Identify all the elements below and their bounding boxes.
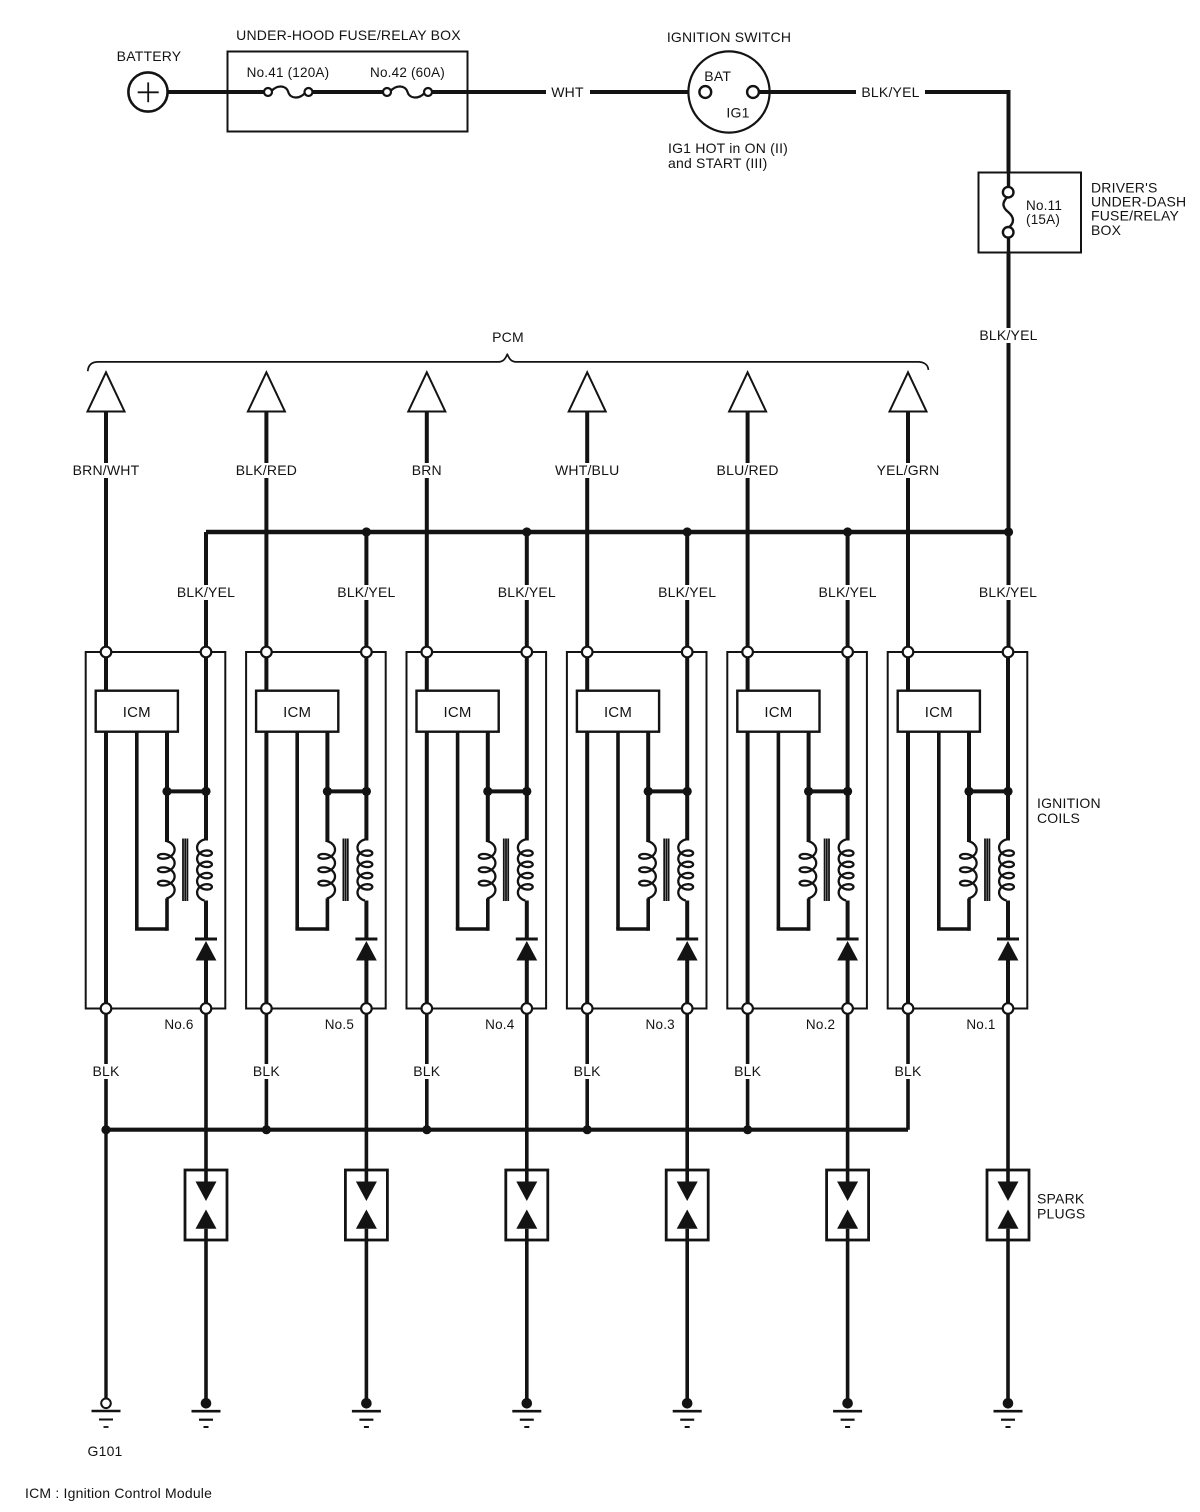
svg-text:ICM : Ignition Control Module: ICM : Ignition Control Module [25, 1485, 212, 1501]
svg-text:PLUGS: PLUGS [1037, 1206, 1085, 1222]
svg-text:BLU/RED: BLU/RED [717, 462, 779, 478]
svg-text:WHT/BLU: WHT/BLU [555, 462, 619, 478]
svg-text:No.11: No.11 [1026, 198, 1062, 213]
svg-text:BLK/YEL: BLK/YEL [979, 327, 1037, 343]
svg-text:BLK: BLK [894, 1063, 922, 1079]
svg-text:BAT: BAT [704, 68, 731, 84]
svg-text:WHT: WHT [551, 84, 584, 100]
svg-text:IGNITION SWITCH: IGNITION SWITCH [667, 29, 791, 45]
svg-text:G101: G101 [88, 1443, 123, 1459]
svg-text:BLK: BLK [734, 1063, 762, 1079]
svg-text:ICM: ICM [123, 704, 151, 721]
svg-text:UNDER-HOOD FUSE/RELAY BOX: UNDER-HOOD FUSE/RELAY BOX [236, 27, 461, 43]
svg-text:BRN/WHT: BRN/WHT [73, 462, 140, 478]
svg-text:BLK/YEL: BLK/YEL [861, 84, 919, 100]
svg-text:ICM: ICM [604, 704, 632, 721]
svg-text:BLK/YEL: BLK/YEL [658, 584, 716, 600]
svg-text:IG1: IG1 [726, 105, 749, 121]
svg-text:BLK/YEL: BLK/YEL [979, 584, 1037, 600]
svg-text:BLK: BLK [253, 1063, 281, 1079]
svg-text:BLK/YEL: BLK/YEL [337, 584, 395, 600]
svg-text:No.3: No.3 [646, 1017, 675, 1032]
svg-text:No.2: No.2 [806, 1017, 835, 1032]
svg-text:SPARK: SPARK [1037, 1191, 1085, 1207]
svg-text:BLK/YEL: BLK/YEL [498, 584, 556, 600]
svg-text:ICM: ICM [444, 704, 472, 721]
svg-text:IGNITION: IGNITION [1037, 795, 1101, 811]
svg-text:No.41 (120A): No.41 (120A) [247, 65, 330, 80]
svg-text:BLK/RED: BLK/RED [236, 462, 297, 478]
svg-text:PCM: PCM [492, 329, 524, 345]
svg-text:IG1 HOT in ON (II): IG1 HOT in ON (II) [668, 140, 788, 156]
svg-text:and START (III): and START (III) [668, 155, 767, 171]
svg-text:No.5: No.5 [325, 1017, 354, 1032]
svg-text:No.6: No.6 [164, 1017, 193, 1032]
svg-text:BLK/YEL: BLK/YEL [818, 584, 876, 600]
svg-text:No.1: No.1 [966, 1017, 995, 1032]
svg-text:BOX: BOX [1091, 222, 1122, 238]
svg-text:BLK: BLK [574, 1063, 602, 1079]
svg-text:BLK/YEL: BLK/YEL [177, 584, 235, 600]
svg-text:ICM: ICM [925, 704, 953, 721]
svg-text:(15A): (15A) [1026, 212, 1060, 227]
svg-text:ICM: ICM [764, 704, 792, 721]
svg-text:BLK: BLK [413, 1063, 441, 1079]
svg-text:BLK: BLK [92, 1063, 120, 1079]
svg-text:BRN: BRN [412, 462, 442, 478]
svg-text:YEL/GRN: YEL/GRN [877, 462, 940, 478]
svg-text:No.42 (60A): No.42 (60A) [370, 65, 445, 80]
svg-text:BATTERY: BATTERY [117, 48, 182, 64]
svg-text:ICM: ICM [283, 704, 311, 721]
svg-text:No.4: No.4 [485, 1017, 515, 1032]
svg-text:COILS: COILS [1037, 810, 1080, 826]
